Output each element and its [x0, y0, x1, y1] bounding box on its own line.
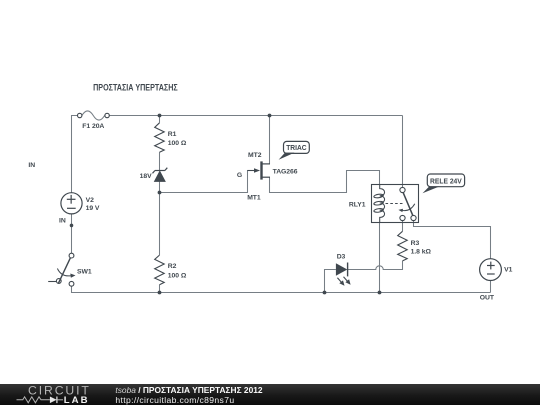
svg-text:1.8 kΩ: 1.8 kΩ — [411, 249, 432, 256]
svg-text:MT1: MT1 — [247, 194, 261, 201]
svg-text:100 Ω: 100 Ω — [168, 272, 187, 279]
svg-text:V2: V2 — [86, 197, 94, 204]
svg-text:G: G — [237, 172, 242, 179]
svg-text:IN: IN — [59, 217, 66, 224]
svg-text:tsoba / ΠΡΟΣΤΑΣΙΑ ΥΠΕΡΤΑΣΗΣ 20: tsoba / ΠΡΟΣΤΑΣΙΑ ΥΠΕΡΤΑΣΗΣ 2012 — [115, 385, 263, 395]
svg-text:ΠΡΟΣΤΑΣΙΑ ΥΠΕΡΤΑΣΗΣ: ΠΡΟΣΤΑΣΙΑ ΥΠΕΡΤΑΣΗΣ — [93, 81, 178, 92]
svg-text:RLY1: RLY1 — [349, 201, 366, 208]
svg-text:OUT: OUT — [480, 294, 495, 301]
svg-text:R3: R3 — [411, 240, 420, 247]
svg-text:http://circuitlab.com/c89ns7u: http://circuitlab.com/c89ns7u — [115, 395, 234, 405]
svg-text:LAB: LAB — [64, 395, 90, 405]
svg-text:IN: IN — [28, 162, 35, 169]
svg-text:TAG266: TAG266 — [273, 168, 298, 175]
svg-text:R1: R1 — [168, 131, 177, 138]
svg-text:RELE 24V: RELE 24V — [430, 179, 462, 186]
svg-text:V1: V1 — [504, 266, 512, 273]
svg-text:100 Ω: 100 Ω — [168, 140, 187, 147]
svg-text:MT2: MT2 — [248, 152, 262, 159]
svg-text:19 V: 19 V — [86, 205, 100, 212]
svg-text:TRIAC: TRIAC — [286, 145, 306, 152]
svg-text:F1 20A: F1 20A — [82, 123, 104, 130]
svg-text:D3: D3 — [337, 253, 346, 260]
svg-text:18V: 18V — [140, 173, 152, 180]
svg-text:R2: R2 — [168, 263, 177, 270]
svg-text:SW1: SW1 — [77, 268, 92, 275]
